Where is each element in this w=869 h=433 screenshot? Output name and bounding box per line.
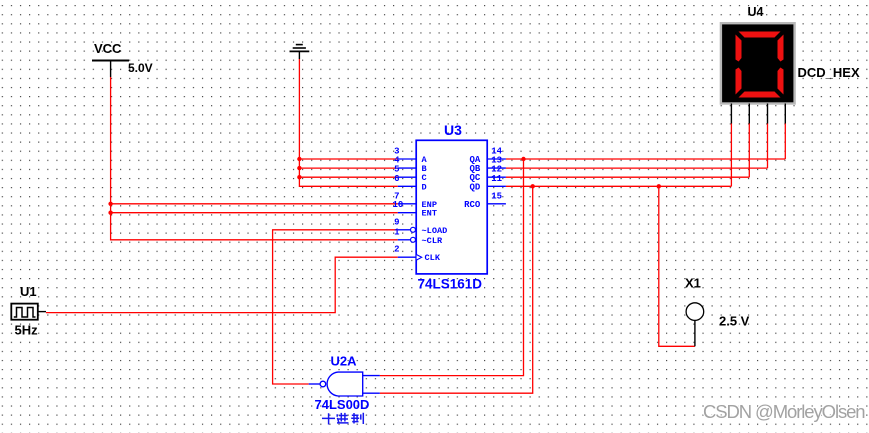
wire QD net xyxy=(506,185,732,187)
svg-text:~CLR: ~CLR xyxy=(422,236,443,246)
svg-text:X1: X1 xyxy=(685,276,701,291)
junction xyxy=(297,175,301,179)
svg-text:U1: U1 xyxy=(20,284,37,299)
wire display pin2 to QC xyxy=(748,124,750,178)
pin QA stub xyxy=(487,158,506,160)
display pin 4 xyxy=(784,104,786,124)
pin C stub xyxy=(398,176,416,178)
svg-text:U4: U4 xyxy=(748,5,764,19)
wire QD to U2A input 2 xyxy=(380,186,533,393)
segment E xyxy=(736,68,742,95)
display pin 1 xyxy=(730,104,732,124)
wire U2A output to ~LOAD xyxy=(273,230,398,384)
pin RCO stub xyxy=(487,203,506,205)
svg-text:DCD_HEX: DCD_HEX xyxy=(798,65,860,80)
wire U1 to CLK xyxy=(46,257,398,312)
junction xyxy=(531,184,535,188)
svg-text:CLK: CLK xyxy=(425,253,441,263)
display pin 2 xyxy=(748,104,750,124)
svg-text:5.0V: 5.0V xyxy=(128,61,153,75)
wire QB net xyxy=(506,167,768,169)
clock source U1 5Hz xyxy=(11,284,46,338)
wire QC net xyxy=(506,176,749,178)
svg-text:U3: U3 xyxy=(444,122,462,138)
svg-text:5Hz: 5Hz xyxy=(15,323,39,338)
wire VCC to ENP/ENT/~CLR xyxy=(111,77,398,240)
junction xyxy=(108,211,112,215)
pin names xyxy=(422,155,481,263)
svg-text:2.5 V: 2.5 V xyxy=(719,314,750,329)
pin A stub xyxy=(398,158,416,160)
svg-text:1: 1 xyxy=(394,227,400,237)
svg-text:15: 15 xyxy=(491,191,502,201)
svg-text:2: 2 xyxy=(394,245,399,255)
pin QC stub xyxy=(487,176,506,178)
svg-text:11: 11 xyxy=(491,174,502,184)
pin CLK stub with clock wedge xyxy=(398,255,422,260)
svg-text:U2A: U2A xyxy=(331,354,358,369)
pin QD stub xyxy=(487,185,506,187)
svg-text:VCC: VCC xyxy=(94,41,122,56)
wire QA to U2A input 1 xyxy=(380,159,524,376)
wire display pin1 to QD xyxy=(730,124,732,187)
svg-text:QD: QD xyxy=(469,182,480,192)
pin B stub xyxy=(398,167,416,169)
segment D xyxy=(739,92,781,98)
svg-text:ENT: ENT xyxy=(422,209,437,219)
pin ENP stub xyxy=(398,203,416,205)
NAND gate U2A 74LS00D xyxy=(309,354,380,413)
svg-text:~LOAD: ~LOAD xyxy=(422,226,448,236)
pin ~LOAD stub with bubble xyxy=(398,227,416,232)
svg-text:CSDN @MorleyOlsen: CSDN @MorleyOlsen xyxy=(703,401,865,422)
pin ENT stub xyxy=(398,212,416,214)
display pin 3 xyxy=(767,104,769,124)
svg-text:9: 9 xyxy=(394,217,399,227)
segment B xyxy=(778,35,784,62)
pin QB stub xyxy=(487,167,506,169)
indicator X1 2.5V xyxy=(685,276,750,347)
pin D stub xyxy=(398,185,416,187)
segment C xyxy=(778,68,784,95)
label 十进制 (decimal) xyxy=(322,413,363,425)
segment A xyxy=(739,32,781,38)
pin ~CLR stub with bubble xyxy=(398,237,416,242)
svg-text:RCO: RCO xyxy=(464,200,481,210)
wire display pin3 to QB xyxy=(767,124,769,169)
pin numbers right xyxy=(491,147,502,202)
svg-text:74LS00D: 74LS00D xyxy=(315,397,370,412)
svg-text:10: 10 xyxy=(392,200,403,210)
wire display pin4 to QA xyxy=(784,124,786,160)
ground xyxy=(290,45,310,59)
svg-text:74LS161D: 74LS161D xyxy=(418,277,483,292)
junction xyxy=(297,166,301,170)
junction xyxy=(297,157,301,161)
svg-text:6: 6 xyxy=(394,174,399,184)
junction xyxy=(657,184,661,188)
svg-text:D: D xyxy=(422,182,427,192)
junction xyxy=(108,202,112,206)
wire QD to X1 xyxy=(659,186,695,346)
power VCC V1 xyxy=(92,41,153,77)
wire QA net xyxy=(506,158,785,160)
display U4 DCD_HEX seven segment xyxy=(721,5,860,104)
pin numbers left xyxy=(392,147,403,255)
wire ground to A/B/C/D xyxy=(299,59,397,186)
junction xyxy=(521,157,525,161)
segment F xyxy=(736,35,742,62)
counter U3 74LS161D xyxy=(416,122,487,292)
